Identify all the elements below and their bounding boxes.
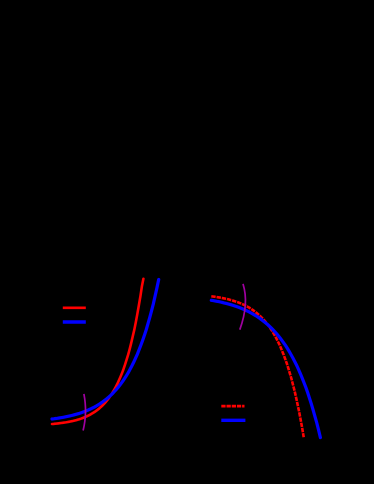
right panel purple arc marker	[240, 284, 246, 330]
left legend red line	[63, 306, 86, 309]
left legend blue line	[63, 320, 86, 323]
right legend red dashed line	[221, 405, 244, 408]
right legend blue line	[221, 419, 245, 422]
right panel red dashed decay curve	[211, 296, 303, 437]
left panel blue growth curve	[52, 280, 159, 420]
left panel red growth curve	[52, 279, 143, 424]
right panel blue decay curve	[211, 300, 320, 437]
left panel purple arc marker	[83, 394, 85, 431]
